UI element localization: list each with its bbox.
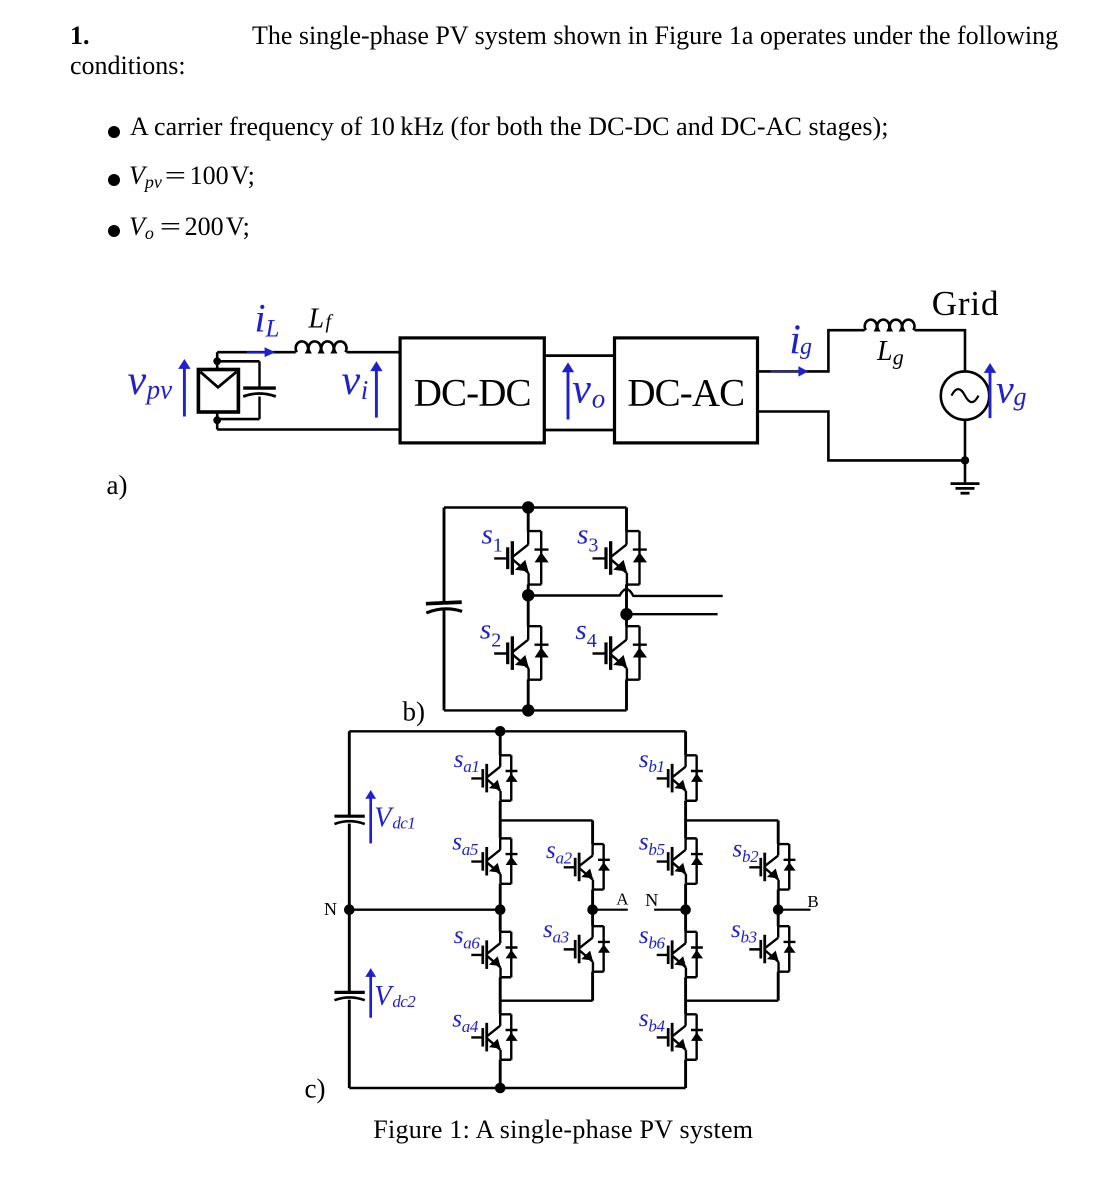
arrow vi <box>375 370 378 418</box>
junction PV top <box>213 357 221 365</box>
svg-text:a6: a6 <box>463 933 480 952</box>
wire fig-b top bus <box>444 506 627 508</box>
svg-text:a3: a3 <box>553 928 569 947</box>
svg-text:v: v <box>128 358 147 404</box>
wire sa2 leg upper <box>591 820 594 844</box>
wire sb3 leg lower <box>777 972 780 1001</box>
svg-text:1: 1 <box>493 534 503 556</box>
junction fig-b top <box>522 501 534 513</box>
svg-text:a5: a5 <box>462 840 478 859</box>
svg-text:i: i <box>361 375 369 405</box>
junction fig-b bottom <box>522 704 534 716</box>
block DC-DC converter U1 <box>400 338 544 443</box>
wire DC-AC output top <box>758 330 865 371</box>
svg-text:b): b) <box>403 697 426 727</box>
svg-text:Grid: Grid <box>932 284 1000 323</box>
wire sa2-sa3 leg <box>591 890 594 927</box>
wire sb2 leg upper <box>777 820 780 844</box>
svg-text:s: s <box>546 837 556 864</box>
IGBT sb5 <box>657 838 703 883</box>
ground <box>964 460 967 483</box>
svg-text:b1: b1 <box>648 757 664 776</box>
capacitor Cdc1 <box>334 816 364 824</box>
IGBT s3 <box>593 531 648 585</box>
IGBT s1 <box>494 531 549 585</box>
IGBT sa4 <box>471 1014 517 1059</box>
IGBT sa2 <box>564 844 610 889</box>
wire b-leg seg5 <box>684 1060 687 1088</box>
wire a-leg seg5 <box>499 1060 502 1088</box>
svg-text:3: 3 <box>588 534 598 556</box>
arrow vg <box>989 372 992 418</box>
wire PV bottom to DC-DC <box>217 428 400 431</box>
wire fig-c left leg segment 3 <box>348 1000 351 1088</box>
svg-text:L: L <box>876 336 893 367</box>
wire a-leg seg4 <box>499 977 502 1014</box>
svg-text:V: V <box>374 981 394 1012</box>
wire fig-b output B <box>627 613 718 615</box>
wire fig-c top bus <box>349 730 685 732</box>
svg-text:s: s <box>577 519 588 551</box>
capacitor Cdc <box>426 602 462 613</box>
svg-text:s: s <box>543 916 553 943</box>
junction fig-c top <box>495 726 506 737</box>
svg-text:s: s <box>639 828 649 855</box>
svg-text:b2: b2 <box>742 847 759 866</box>
wire Lf to DC-DC <box>347 351 400 354</box>
svg-text:s: s <box>452 828 462 855</box>
wire s4 leg lower <box>625 680 628 711</box>
wire a bridge top <box>500 819 592 821</box>
svg-text:s: s <box>731 916 741 943</box>
svg-text:c): c) <box>305 1074 326 1104</box>
svg-text:v: v <box>996 367 1014 412</box>
wire s3 leg upper <box>625 508 628 532</box>
svg-text:g: g <box>800 334 812 360</box>
IGBT sa3 <box>564 926 610 971</box>
svg-text:dc1: dc1 <box>392 814 415 833</box>
wire s2 leg lower <box>527 680 530 711</box>
svg-text:pv: pv <box>145 374 173 404</box>
junction PV bottom <box>213 416 221 424</box>
svg-text:a2: a2 <box>556 848 573 867</box>
svg-text:s: s <box>480 613 491 645</box>
wire grid source to ground <box>964 420 967 461</box>
svg-text:g: g <box>1014 382 1027 411</box>
wire fig-b output A (with hop) <box>528 589 723 596</box>
junction node A <box>587 904 598 915</box>
svg-text:b5: b5 <box>648 840 664 859</box>
svg-text:N: N <box>645 890 658 910</box>
IGBT sa6 <box>471 932 517 977</box>
arrow Vdc2 <box>369 976 372 1018</box>
junction fig-c bottom <box>495 1083 506 1094</box>
svg-text:a4: a4 <box>462 1017 479 1036</box>
node N stub (right) <box>654 909 686 911</box>
svg-text:s: s <box>454 746 464 773</box>
junction ground node <box>961 456 969 464</box>
wire b bridge top <box>686 819 779 821</box>
junction fig-b mid-left <box>522 589 534 601</box>
svg-text:s: s <box>639 746 649 773</box>
IGBT sa5 <box>471 838 517 883</box>
block DC-AC inverter U2 <box>615 338 758 443</box>
IGBT sb6 <box>657 932 703 977</box>
svg-text:DC-AC: DC-AC <box>627 371 744 414</box>
svg-text:s: s <box>639 1005 649 1032</box>
svg-text:s: s <box>454 922 464 949</box>
PV module PV1 <box>198 352 238 429</box>
wire b-leg seg4 <box>684 977 687 1014</box>
IGBT sa1 <box>471 755 517 800</box>
svg-text:v: v <box>342 358 361 404</box>
wire sb2-sb3 leg <box>777 890 780 927</box>
junction N-bleg <box>680 904 691 915</box>
svg-text:4: 4 <box>587 630 597 652</box>
wire node N <box>349 909 500 911</box>
svg-text:DC-DC: DC-DC <box>414 371 531 414</box>
svg-text:o: o <box>592 383 606 413</box>
svg-text:a): a) <box>107 470 128 500</box>
junction N-aleg <box>495 904 506 915</box>
svg-text:dc2: dc2 <box>392 992 416 1011</box>
svg-text:i: i <box>255 296 266 341</box>
inductor Lg <box>865 320 915 331</box>
svg-text:a1: a1 <box>463 757 479 776</box>
wire DC-DC to DC-AC top <box>544 354 614 357</box>
arrow vpv <box>183 368 186 417</box>
svg-text:b3: b3 <box>741 928 757 947</box>
svg-text:L: L <box>265 316 280 343</box>
svg-text:B: B <box>807 892 818 911</box>
svg-text:b4: b4 <box>648 1016 665 1035</box>
capacitor Cdc2 <box>334 992 364 1000</box>
wire Lg to grid source <box>915 330 965 371</box>
svg-text:L: L <box>308 304 325 335</box>
wire fig-b cap leg top <box>443 508 446 602</box>
svg-text:s: s <box>482 519 493 551</box>
svg-text:s: s <box>575 614 586 646</box>
arrow iL <box>247 351 266 353</box>
wire DC-AC output bottom <box>758 412 966 461</box>
wire a-leg seg2 <box>499 801 502 839</box>
wire a-leg seg3 <box>499 884 502 932</box>
svg-text:V: V <box>374 802 394 833</box>
IGBT sb3 <box>749 926 795 971</box>
svg-text:s: s <box>639 922 649 949</box>
wire b-leg seg2 <box>684 801 687 839</box>
wire s1 leg upper <box>527 508 530 532</box>
capacitor Cpv <box>217 361 276 419</box>
IGBT sb4 <box>657 1014 703 1059</box>
svg-text:A: A <box>616 890 629 909</box>
wire s3-s4 leg <box>625 584 628 626</box>
wire s1-s2 leg <box>527 584 530 626</box>
junction fig-b mid-right <box>620 608 632 620</box>
svg-text:s: s <box>452 1005 462 1032</box>
svg-text:f: f <box>326 311 334 333</box>
IGBT s2 <box>494 626 549 680</box>
svg-text:b6: b6 <box>648 933 665 952</box>
junction N-left <box>344 904 355 915</box>
wire a bridge bottom <box>500 1000 592 1002</box>
wire fig-c left leg segment 2 <box>348 824 351 993</box>
wire fig-c bottom bus <box>349 1087 685 1089</box>
arrow ig <box>771 370 800 372</box>
node A lead <box>593 909 628 911</box>
svg-text:N: N <box>324 899 337 919</box>
wire fig-b bottom bus <box>444 709 627 711</box>
svg-text:s: s <box>733 835 743 862</box>
IGBT sb1 <box>657 755 703 800</box>
wire b-leg seg1 <box>684 731 687 755</box>
svg-text:g: g <box>893 345 904 370</box>
svg-text:2: 2 <box>491 629 501 651</box>
wire DC-DC to DC-AC bottom <box>544 429 614 432</box>
node B lead <box>778 909 810 911</box>
wire sa3 leg lower <box>591 972 594 1001</box>
wire PV to Lf <box>217 351 295 354</box>
IGBT s4 <box>593 626 648 680</box>
wire fig-b cap leg bottom <box>443 611 446 711</box>
AC source vg (grid) <box>941 371 989 419</box>
arrow Vdc1 <box>369 798 372 844</box>
wire a-leg seg1 <box>499 731 502 755</box>
wire b bridge bottom <box>686 1000 779 1002</box>
wire b-leg seg3 <box>684 884 687 932</box>
IGBT sb2 <box>749 844 795 889</box>
svg-text:v: v <box>572 367 591 413</box>
inductor Lf <box>296 341 347 352</box>
junction node B <box>773 904 784 915</box>
wire fig-c left leg segment 1 <box>348 731 351 816</box>
arrow vo <box>567 371 570 419</box>
